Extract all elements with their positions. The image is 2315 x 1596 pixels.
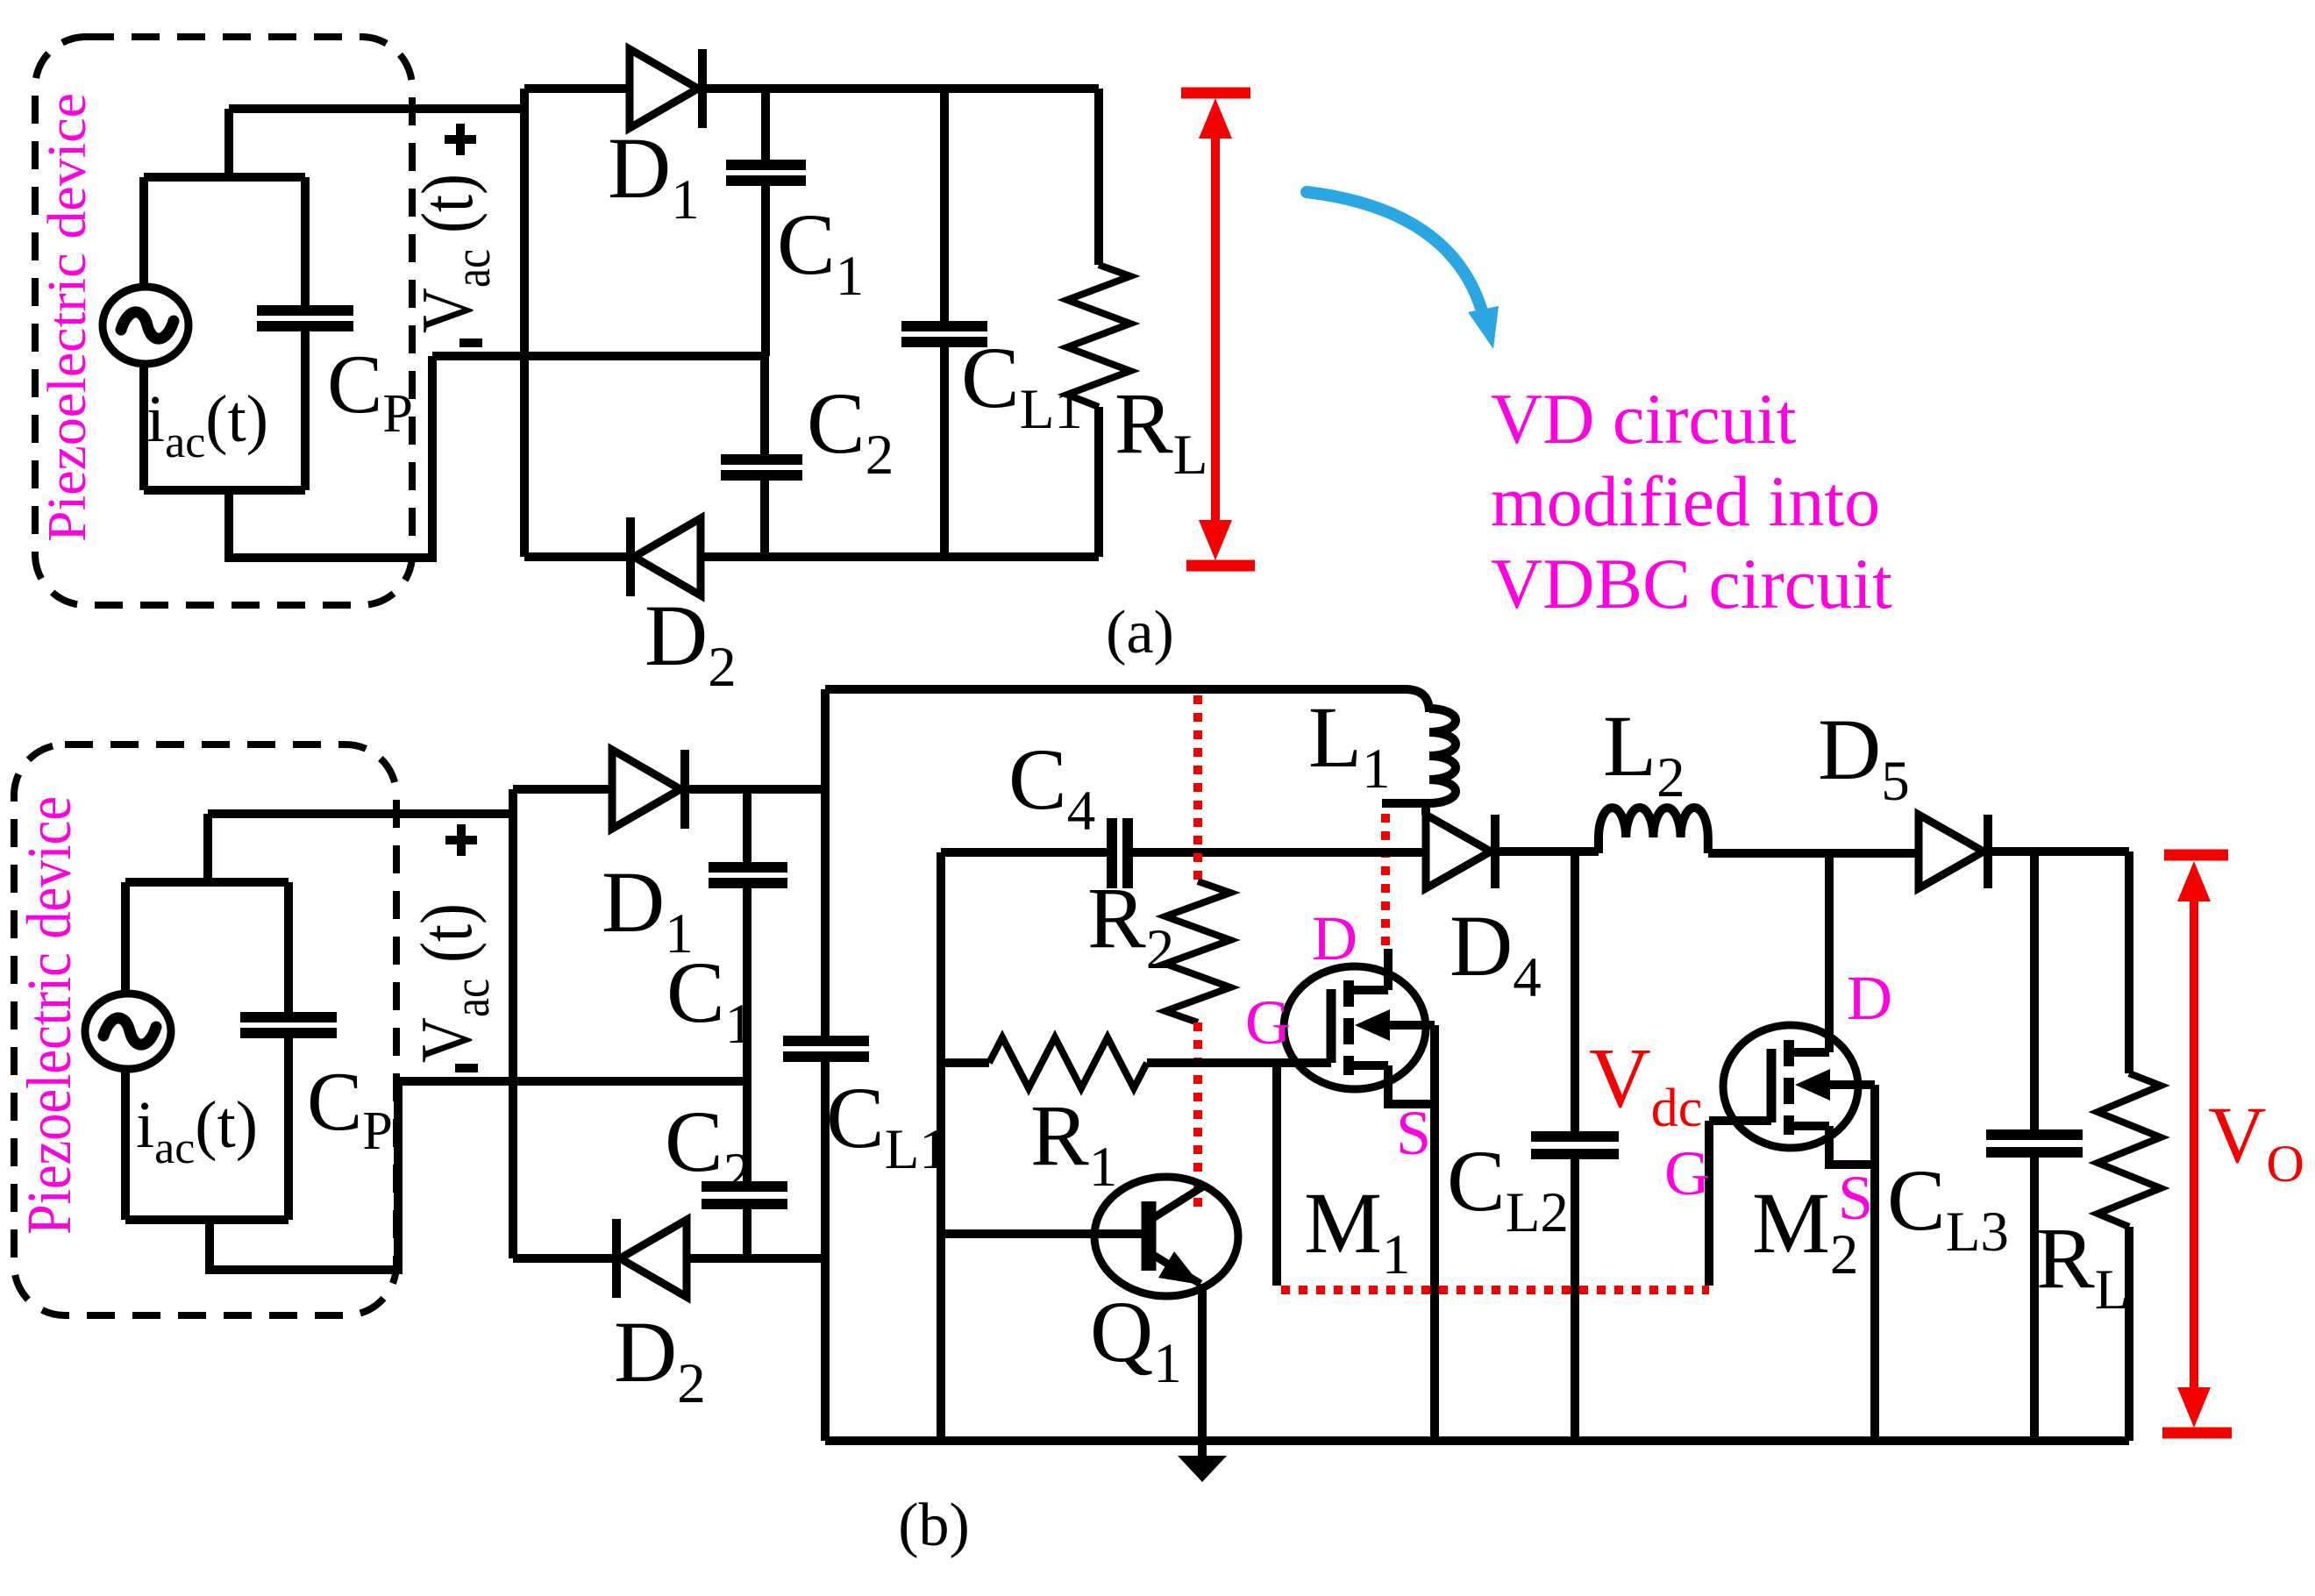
wire M2 drain riser [1825,853,1834,1052]
wire mid rail (a) [432,352,765,360]
wire inner loop bottom (b) [125,1215,288,1224]
wire vd bottom rail left (b) [513,1254,616,1263]
svg-text:iac(t): iac(t) [146,382,268,467]
wire vd bottom rail right (b) [687,1254,825,1263]
wire inner loop top (b) [125,878,288,887]
ground symbol [1178,1456,1227,1482]
piezo dashed box (a) [35,37,412,605]
resistor R1 [941,1037,1147,1088]
diode D1 (a) [630,49,702,128]
capacitor CP (b) [240,882,337,1220]
resistor RL (a) [1067,89,1130,557]
plus sign (a) [445,124,476,155]
resistor R2 [1165,881,1230,1022]
wire bottom rail (b) [825,1436,2129,1445]
capacitor C1 (a) [726,89,806,356]
wire control block left edge [937,852,945,1441]
wire gate feedback drop [1272,1063,1281,1286]
diode D2 (b) [616,1219,687,1298]
wire piezo plus output (a) [229,109,524,177]
diode D5 [1919,815,1988,888]
capacitor C2 (b) [702,1081,787,1258]
current source i_ac (b) [85,994,171,1069]
wire mid rail (b) [398,1077,747,1086]
wire piezo minus output (b) [210,1081,398,1270]
svg-text:Piezoelectric device: Piezoelectric device [38,93,97,542]
wire vd top rail right (b) [689,785,825,794]
capacitor CL2 [1531,853,1619,1441]
wire Q1 emitter down [1198,1284,1207,1457]
wire inner loop bottom (a) [144,486,305,495]
red dotted source link [1281,1286,1709,1294]
capacitor CL3 [1986,851,2083,1441]
svg-text:(a): (a) [1106,599,1174,666]
minus sign (b) [455,1064,478,1072]
wire source top lead (a) [139,177,148,288]
svg-text:(b): (b) [898,1492,970,1559]
inductor L2 [1599,808,1708,853]
svg-text:D: D [1847,963,1892,1033]
svg-text:VD circuit: VD circuit [1491,379,1797,459]
mosfet M1 [1284,966,1435,1441]
transistor Q1 [941,1177,1238,1296]
wire source bottom lead (b) [121,1069,130,1220]
capacitor CP (a) [257,177,353,490]
capacitor CL1 (b) on left edge [783,689,869,1441]
wire piezo plus output (b) [208,814,513,882]
wire top rail left (a) [524,84,630,93]
red measurement arrow (a) [1181,93,1255,566]
wire C4 rail left [941,848,1107,857]
svg-text:G: G [1245,987,1291,1058]
wire top rail (b) [825,689,1429,712]
wire piezo minus output (a) [229,356,432,558]
wire vd top rail left (b) [513,785,612,794]
capacitor CL1 (a) [901,89,987,557]
wire M1 drain stub [1384,949,1393,990]
wire M2 gate lead [1709,1121,1771,1286]
capacitor C2 (a) [721,356,802,557]
wire left rail (a) [520,89,529,557]
capacitor C1 (b) [709,789,787,1081]
wire C4 rail right [1133,848,1426,857]
diode D4 [1426,815,1495,888]
wire source top lead (b) [121,882,130,994]
blue arrow [1307,192,1499,349]
svg-text:Piezoelectric device: Piezoelectric device [14,796,84,1235]
wire bottom rail right (a) [701,552,1099,561]
wire inner loop top (a) [144,173,305,182]
wire right edge top [2125,851,2133,1073]
wire D4 to L2 node [1499,847,1599,856]
inductor L1 [1382,709,1456,815]
wire source bottom lead (a) [139,364,148,490]
svg-text:VDBC circuit: VDBC circuit [1491,544,1892,623]
svg-text:iac(t): iac(t) [136,1088,258,1173]
wire top rail right (a) [707,84,1099,93]
svg-text:S: S [1838,1163,1873,1233]
diode D1 (b) [612,750,685,829]
capacitor C4 [1112,818,1128,888]
wire output rail [1992,847,2129,856]
mosfet M2 [1723,1025,1875,1441]
current source i_ac (a) [103,287,189,364]
wire left rail (b) [509,789,517,1258]
red output arrow VO [2162,855,2232,1433]
diode D2 (a) [630,517,701,596]
piezo dashed box (b) [14,745,396,1315]
minus sign (a) [459,338,482,347]
red dotted gate drive line upper [1193,695,1202,881]
red dotted drain link [1381,814,1390,949]
red dotted gate drive line lower [1193,1022,1202,1215]
resistor RL (b) [2098,1073,2161,1441]
label VD circuit modified into VDBC circuit [1491,379,1892,623]
plus sign (b) [445,824,477,856]
svg-text:modified into: modified into [1491,461,1880,541]
wire bottom rail left (a) [524,552,630,561]
svg-text:D: D [1312,903,1357,973]
svg-text:S: S [1396,1098,1431,1168]
wire L2 to D5 [1708,849,1919,858]
svg-text:G: G [1664,1138,1710,1208]
wire gate rail [1147,1058,1331,1067]
